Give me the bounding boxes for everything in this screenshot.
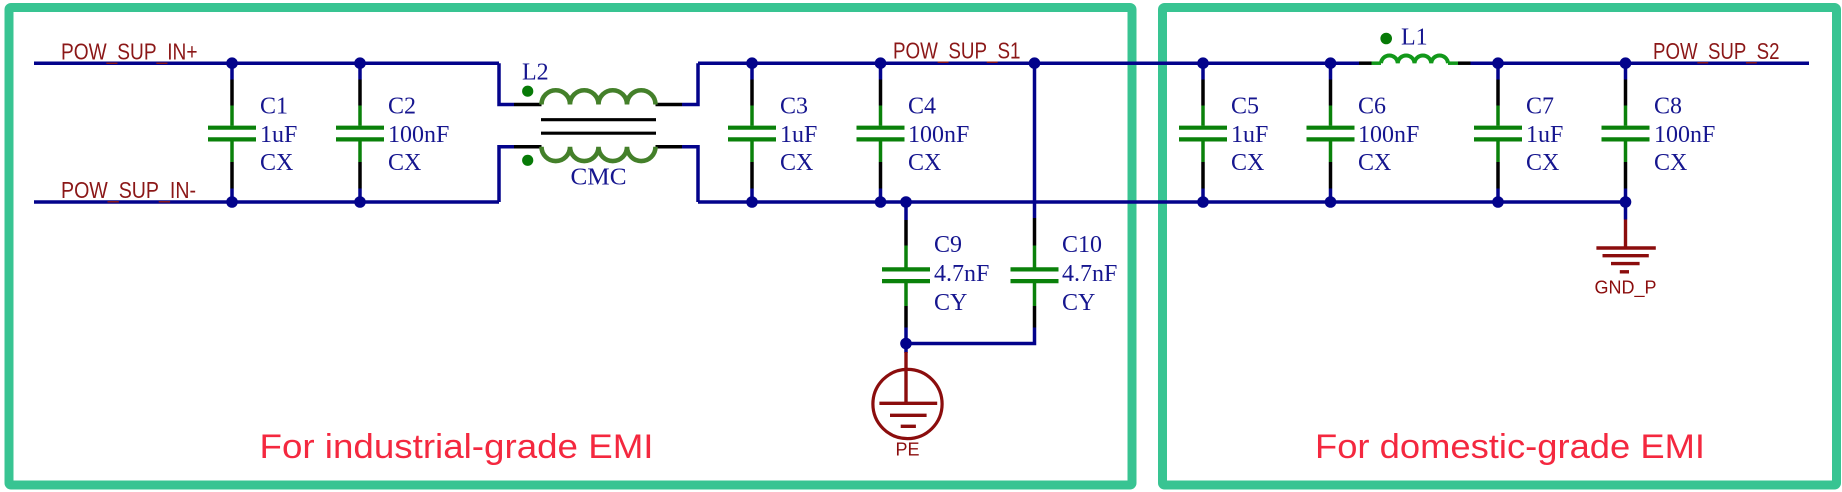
- wire bottom rail right: [698, 200, 1626, 204]
- inductor L1 winding: [1381, 55, 1448, 63]
- svg-text:POW_SUP_S1: POW_SUP_S1: [893, 38, 1021, 64]
- junction PE node: [900, 338, 912, 350]
- svg-text:CX: CX: [260, 150, 293, 176]
- wire CMC left vertical top: [499, 63, 514, 104]
- svg-text:POW_SUP_IN+: POW_SUP_IN+: [61, 38, 198, 64]
- capacitor C5: [1179, 63, 1227, 202]
- frame industrial EMI box: [9, 8, 1132, 486]
- svg-text:CX: CX: [1231, 150, 1264, 176]
- junction C1 bottom: [226, 196, 238, 208]
- svg-text:1uF: 1uF: [780, 122, 817, 148]
- wire C9 C10 bottom link: [906, 328, 1035, 344]
- svg-text:GND_P: GND_P: [1594, 278, 1656, 299]
- common-mode choke L2 pins: [514, 105, 682, 147]
- label C5 1uF CX: [1231, 94, 1268, 177]
- junction C5 bottom: [1197, 196, 1209, 208]
- svg-text:CX: CX: [1654, 150, 1687, 176]
- label C2 100nF CX: [388, 94, 449, 177]
- capacitor C1: [208, 63, 256, 202]
- capacitor C7: [1474, 63, 1522, 202]
- capacitor C9: [882, 202, 930, 328]
- junction C8 bottom: [1620, 196, 1632, 208]
- capacitor C10: [1011, 218, 1059, 328]
- svg-text:CX: CX: [1358, 150, 1391, 176]
- wire CMC right vertical bottom: [682, 147, 698, 202]
- junction C6 top: [1325, 57, 1337, 69]
- wire GND stub: [1624, 202, 1628, 220]
- svg-text:100nF: 100nF: [1654, 122, 1715, 148]
- svg-text:CMC: CMC: [571, 165, 627, 191]
- label C8 100nF CX: [1654, 94, 1715, 177]
- capacitor C6: [1307, 63, 1355, 202]
- label C10 4.7nF CY: [1062, 232, 1117, 316]
- wire top rail left: [34, 61, 499, 65]
- wire S1 drop to C10: [1033, 63, 1037, 218]
- svg-text:C3: C3: [780, 94, 808, 120]
- svg-text:For domestic-grade EMI: For domestic-grade EMI: [1315, 428, 1705, 466]
- junction C7 bottom: [1492, 196, 1504, 208]
- svg-text:CX: CX: [388, 150, 421, 176]
- svg-text:C7: C7: [1526, 94, 1554, 120]
- svg-text:CY: CY: [1062, 290, 1095, 316]
- svg-text:C9: C9: [934, 232, 962, 258]
- svg-text:1uF: 1uF: [1231, 122, 1268, 148]
- common-mode choke L2 core: [541, 120, 656, 134]
- label C9 4.7nF CY: [934, 232, 989, 316]
- inductor L1 pins: [1359, 61, 1471, 65]
- svg-text:PE: PE: [895, 440, 919, 460]
- wire CMC right vertical top: [682, 63, 698, 104]
- power port GND_P: [1596, 220, 1655, 272]
- svg-text:CX: CX: [908, 150, 941, 176]
- label C7 1uF CX: [1526, 94, 1563, 177]
- svg-text:100nF: 100nF: [1358, 122, 1419, 148]
- junction C1 top: [226, 57, 238, 69]
- capacitor C3: [728, 63, 776, 202]
- junction C4 bottom: [875, 196, 887, 208]
- common-mode choke L2 bottom winding: [542, 147, 656, 161]
- L1 polarity dot: [1380, 33, 1392, 45]
- junction C8 top: [1620, 57, 1632, 69]
- svg-text:C4: C4: [908, 94, 936, 120]
- svg-text:CX: CX: [1526, 150, 1559, 176]
- capacitor C8: [1602, 63, 1650, 202]
- svg-text:C1: C1: [260, 94, 288, 120]
- label C6 100nF CX: [1358, 94, 1419, 177]
- svg-text:100nF: 100nF: [908, 122, 969, 148]
- power port PE: [873, 352, 942, 439]
- svg-text:CX: CX: [780, 150, 813, 176]
- L2 polarity dot bottom: [522, 155, 533, 166]
- svg-text:C10: C10: [1062, 232, 1102, 258]
- wire bottom rail left: [34, 200, 499, 204]
- svg-text:C8: C8: [1654, 94, 1682, 120]
- svg-text:C2: C2: [388, 94, 416, 120]
- inductor L1 leads: [1372, 61, 1459, 65]
- wire CMC left vertical bottom: [499, 147, 514, 202]
- junction C7 top: [1492, 57, 1504, 69]
- svg-text:1uF: 1uF: [260, 122, 297, 148]
- frame domestic EMI box: [1163, 8, 1837, 486]
- capacitor C4: [857, 63, 905, 202]
- svg-text:100nF: 100nF: [388, 122, 449, 148]
- junction C6 bottom: [1325, 196, 1337, 208]
- label C1 1uF CX: [260, 94, 297, 177]
- junction C9 top: [900, 196, 912, 208]
- capacitor C2: [336, 63, 384, 202]
- svg-text:For industrial-grade EMI: For industrial-grade EMI: [260, 428, 654, 466]
- junction C5 top: [1197, 57, 1209, 69]
- svg-text:C5: C5: [1231, 94, 1259, 120]
- svg-text:4.7nF: 4.7nF: [1062, 261, 1117, 287]
- wire top rail right: [1471, 61, 1810, 65]
- junction C4 top: [875, 57, 887, 69]
- junction C3 top: [746, 57, 758, 69]
- junction S1 node: [1029, 57, 1041, 69]
- svg-text:4.7nF: 4.7nF: [934, 261, 989, 287]
- wire top rail middle: [698, 61, 1359, 65]
- svg-text:1uF: 1uF: [1526, 122, 1563, 148]
- label C3 1uF CX: [780, 94, 817, 177]
- wire PE stub: [904, 344, 908, 354]
- common-mode choke L2 top winding: [542, 90, 656, 104]
- svg-text:L1: L1: [1401, 25, 1428, 51]
- label C4 100nF CX: [908, 94, 969, 177]
- svg-text:POW_SUP_IN-: POW_SUP_IN-: [61, 177, 196, 203]
- svg-text:POW_SUP_S2: POW_SUP_S2: [1653, 38, 1780, 64]
- junction C2 bottom: [354, 196, 366, 208]
- junction C2 top: [354, 57, 366, 69]
- svg-text:C6: C6: [1358, 94, 1386, 120]
- L2 polarity dot top: [522, 86, 533, 97]
- svg-text:CY: CY: [934, 290, 967, 316]
- svg-text:L2: L2: [522, 60, 549, 86]
- junction C3 bottom: [746, 196, 758, 208]
